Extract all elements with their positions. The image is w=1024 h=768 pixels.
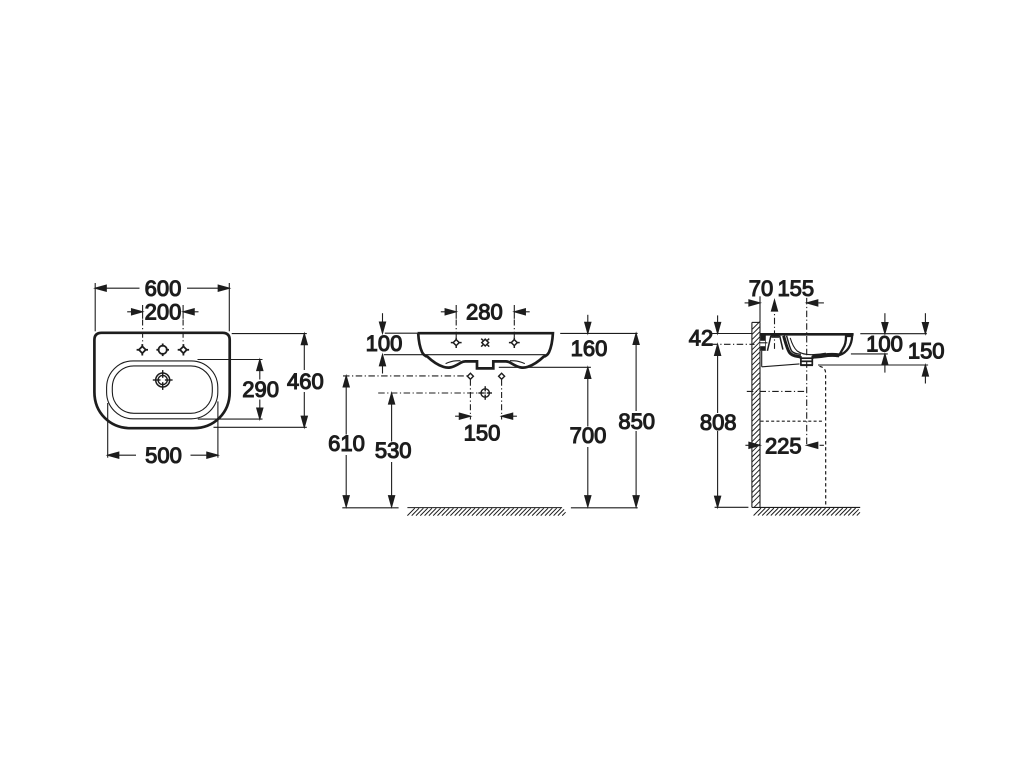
label 700 [570, 423, 607, 448]
label 70 [749, 276, 773, 301]
tap deck section [767, 336, 783, 351]
label 100 side [866, 332, 903, 357]
dimension 850 [633, 333, 639, 506]
centreline fixing hole right [501, 380, 503, 420]
waste pipe hidden line [820, 366, 826, 507]
trap box hidden line [761, 420, 824, 422]
basin inner rim outer oval [107, 361, 218, 419]
svg-text:150: 150 [464, 421, 501, 446]
centreline left tap (front) [455, 320, 457, 338]
drain trap section [800, 356, 814, 365]
centreline right tap (front) [513, 320, 515, 338]
svg-text:200: 200 [145, 300, 182, 325]
label 42 [689, 325, 713, 350]
dimension 42 [715, 315, 721, 355]
label 290 [242, 377, 279, 402]
label 600 [145, 276, 182, 301]
wall fixing hole right (front) [499, 373, 505, 379]
dimension 200 [127, 305, 198, 319]
svg-text:600: 600 [145, 276, 182, 301]
centreline left tap hole [142, 320, 144, 344]
drain symbol top view [153, 370, 173, 390]
dimension 500 [108, 401, 218, 458]
label 850 [618, 409, 655, 434]
dimension 150 front [455, 413, 517, 419]
front rim section (crescent) [839, 336, 852, 355]
bowl interior line [790, 338, 826, 355]
tap hole left (top view) [137, 344, 148, 355]
svg-text:155: 155 [777, 276, 814, 301]
drain outlet (front) [478, 386, 492, 400]
tap hole left (front) [451, 337, 462, 348]
dimension 225 [745, 442, 824, 448]
label 500 [145, 443, 182, 468]
label 160 [571, 336, 608, 361]
tap axis centreline (side) [774, 305, 776, 349]
height reference line 610 [343, 375, 470, 377]
dimension 610 [343, 376, 349, 507]
floor line front view [342, 507, 637, 509]
label 150 side [908, 338, 945, 363]
drain axis centreline (side) [806, 298, 808, 445]
label 280 [466, 300, 503, 325]
bowl wall section left [784, 336, 801, 357]
dimension 808 [715, 355, 749, 507]
drain height reference line (side) [747, 390, 807, 392]
tap axis arrow [771, 300, 777, 311]
dimension 160 [499, 315, 638, 368]
inner bowl edge left (front) [446, 361, 461, 364]
svg-text:500: 500 [145, 443, 182, 468]
basin inner rim inner oval [112, 366, 212, 413]
dimension 150 side [818, 313, 929, 383]
label 530 [375, 438, 412, 463]
inner bowl edge right (front) [510, 361, 525, 364]
svg-text:850: 850 [618, 409, 655, 434]
dimension 100 front [379, 313, 417, 373]
wall section [752, 322, 760, 507]
centreline fixing hole left [469, 380, 471, 420]
svg-text:160: 160 [571, 336, 608, 361]
svg-text:42: 42 [689, 325, 713, 350]
dimension 460 [214, 334, 308, 428]
fixing hole reference line 42 [711, 343, 754, 345]
label 610 [328, 431, 365, 456]
label 200 [145, 300, 182, 325]
svg-text:530: 530 [375, 438, 412, 463]
wall hatching [752, 321, 760, 507]
label 150 front [464, 421, 501, 446]
tap hole right (top view) [178, 344, 189, 355]
svg-text:100: 100 [366, 331, 403, 356]
svg-text:150: 150 [908, 338, 945, 363]
dimension 155 [807, 300, 824, 306]
tap hole centre (top view) [156, 344, 169, 357]
dimension 700 [585, 367, 591, 507]
svg-text:100: 100 [866, 332, 903, 357]
svg-text:808: 808 [700, 410, 737, 435]
basin outline top view [94, 333, 229, 428]
svg-text:700: 700 [570, 423, 607, 448]
svg-text:460: 460 [287, 369, 324, 394]
floor hatching front view [407, 508, 565, 516]
label 155 [777, 276, 814, 301]
floor hatching side view [754, 508, 860, 515]
basin front profile [418, 333, 553, 368]
dimension 290 [198, 360, 263, 420]
label 100 front [366, 331, 403, 356]
dimension 280 [441, 305, 530, 319]
tap hole centre (front) [481, 339, 489, 347]
dimension 100 side [851, 313, 927, 372]
dimension 530 [389, 393, 395, 507]
centreline right tap hole [182, 320, 184, 344]
wall fixing hole left (front) [467, 373, 473, 379]
basin underside / apron [762, 351, 800, 367]
label 460 [287, 369, 324, 394]
svg-text:225: 225 [765, 433, 802, 458]
back fixing flange [760, 335, 768, 351]
basin side profile top edge [760, 333, 854, 336]
dimension 600 [95, 283, 229, 331]
bowl underside right section [812, 355, 839, 357]
label 225 [765, 433, 802, 458]
svg-text:280: 280 [466, 300, 503, 325]
svg-text:290: 290 [242, 377, 279, 402]
tap hole right (front) [509, 337, 520, 348]
height reference line 530 [378, 392, 486, 394]
svg-text:70: 70 [749, 276, 773, 301]
floor line side view [752, 506, 860, 508]
svg-text:610: 610 [328, 431, 365, 456]
top edge reference line left [711, 333, 752, 335]
rim line front view [384, 354, 546, 356]
label 808 [700, 410, 737, 435]
dimension 70 [745, 296, 760, 322]
